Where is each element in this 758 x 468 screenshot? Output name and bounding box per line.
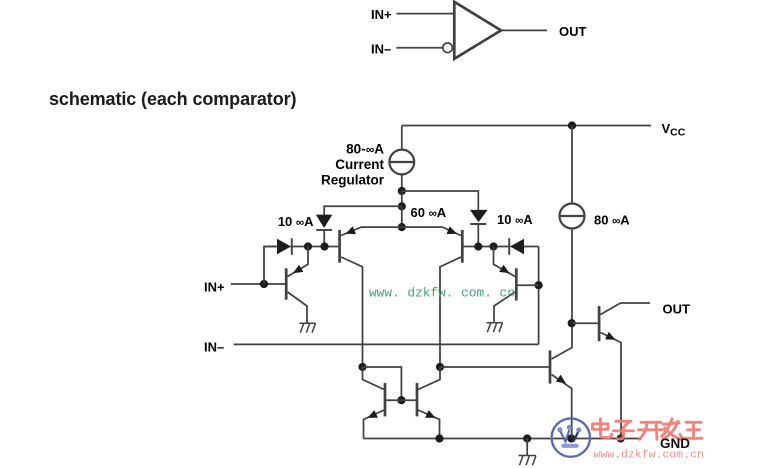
transistor Q2L bar xyxy=(338,230,341,263)
Q1R emitter xyxy=(494,247,516,277)
node D3 cathode dot xyxy=(320,242,328,250)
svg-text:80-∞A: 80-∞A xyxy=(346,142,384,157)
svg-text:10 ∞A: 10 ∞A xyxy=(497,212,533,227)
ground chassis center xyxy=(526,439,528,456)
node Q8 base dot xyxy=(568,319,576,327)
wire node1 to node2 xyxy=(401,191,403,206)
Q1L collector xyxy=(288,292,308,323)
wire mirror right node to Q7 base xyxy=(440,366,549,368)
transistor Q5 bar xyxy=(384,383,387,416)
left base rail wire xyxy=(291,246,339,248)
GND rail wire xyxy=(364,438,641,440)
Q1R emitter arrow xyxy=(499,265,509,274)
node 2 dot xyxy=(398,202,406,210)
Q8 emitter arrow xyxy=(605,332,615,340)
wire CS1 to node1 xyxy=(401,174,403,191)
node rail Q6 dot xyxy=(435,434,443,442)
node D1 cathode dot xyxy=(304,242,312,250)
transistor Q8 bar xyxy=(598,306,601,341)
mirror diode-connect wire xyxy=(363,367,402,400)
Q6 emitter xyxy=(418,410,440,439)
ground at Q1R collector xyxy=(487,323,503,333)
svg-text:Current: Current xyxy=(335,157,384,172)
svg-text:IN+: IN+ xyxy=(371,7,392,22)
wire IN+ node up to D1 anode xyxy=(264,247,276,285)
comparator symbol triangle xyxy=(454,2,501,59)
svg-text:80 ∞A: 80 ∞A xyxy=(594,213,630,228)
node Q1R emitter dot xyxy=(489,242,497,250)
wire comparator output xyxy=(501,29,547,31)
diode D1 clamp left xyxy=(277,239,291,255)
Q7 emitter xyxy=(552,375,572,439)
mirror base wires xyxy=(386,399,416,401)
Q1R base wire xyxy=(518,284,539,286)
wire IN- input xyxy=(234,343,539,345)
Q2R collector xyxy=(440,257,461,367)
current regulator CS1 80-uA xyxy=(389,150,414,175)
diode D4 10uA right xyxy=(470,210,488,222)
node rail center dot xyxy=(523,434,531,442)
transistor Q6 bar xyxy=(416,383,419,416)
svg-text:www.dzkfw.com.cn: www.dzkfw.com.cn xyxy=(594,450,704,462)
current mirror: node left dot xyxy=(358,363,366,371)
svg-text:VCC: VCC xyxy=(662,121,686,139)
node rail Q8 dot xyxy=(617,434,625,442)
node VCC branch dot xyxy=(568,121,576,129)
Q2L collector xyxy=(341,257,363,367)
svg-text:IN–: IN– xyxy=(371,42,391,57)
transistor Q1R bar xyxy=(515,268,518,300)
logo crown W xyxy=(560,430,579,442)
Q8 collector to OUT xyxy=(601,303,651,315)
svg-text:IN–: IN– xyxy=(204,340,224,355)
Q1R collector xyxy=(494,292,515,323)
Q1L emitter xyxy=(288,247,309,277)
logo blue circle xyxy=(552,418,590,456)
wire IN+ input xyxy=(231,283,285,285)
Q5 emitter arrow xyxy=(368,410,378,418)
ground at Q1L collector xyxy=(300,323,316,333)
wire IN+ to comparator xyxy=(396,13,454,15)
current source CS2 80uA xyxy=(560,204,585,229)
node D4 cathode dot xyxy=(474,242,482,250)
right base rail wire xyxy=(464,246,511,248)
transistor Q2R bar xyxy=(461,230,464,263)
wire VCC to CS1 xyxy=(401,126,403,150)
svg-text:IN+: IN+ xyxy=(204,280,225,295)
mirror common base dot xyxy=(397,396,405,404)
diode D3 10uA left xyxy=(316,215,332,228)
svg-text:schematic (each comparator): schematic (each comparator) xyxy=(49,89,296,109)
wire node1 to D4 anode xyxy=(402,191,479,210)
svg-text:OUT: OUT xyxy=(559,24,587,39)
wire tail to Q2L emitter xyxy=(341,227,402,235)
svg-text:60 ∞A: 60 ∞A xyxy=(411,205,447,220)
Q1L emitter arrow xyxy=(293,265,303,274)
svg-text:GND: GND xyxy=(660,436,690,451)
wire VCC dot to CS2 xyxy=(571,126,573,204)
node 1 dot xyxy=(398,187,406,195)
Q2R emitter arrow xyxy=(447,226,457,234)
node 3 tail dot xyxy=(398,223,406,231)
VCC rail wire xyxy=(402,125,651,127)
Q8 emitter xyxy=(601,333,622,439)
Q2L emitter arrow xyxy=(346,226,356,234)
wire D2 anode down to IN- node xyxy=(538,247,540,345)
svg-text:www. dzkfw. com. cn: www. dzkfw. com. cn xyxy=(369,286,515,301)
svg-text:10 ∞A: 10 ∞A xyxy=(278,214,314,229)
wire node2 to D3 anode xyxy=(324,206,402,214)
svg-text:OUT: OUT xyxy=(663,302,691,317)
svg-text:Regulator: Regulator xyxy=(321,173,385,188)
wire tail to Q2R emitter xyxy=(402,227,461,235)
wire CS2 down to Q7 collector xyxy=(552,229,573,360)
transistor Q1L bar xyxy=(285,268,288,299)
Q5 emitter xyxy=(364,410,385,439)
wire node2 to tail node3 xyxy=(401,206,403,227)
transistor Q7 bar xyxy=(549,350,552,383)
Q8 base wire xyxy=(572,322,598,324)
node rail Q7 dot xyxy=(567,434,575,442)
logo red chinese title xyxy=(593,419,703,440)
inversion bubble on IN- input xyxy=(443,43,453,53)
Q6 collector xyxy=(418,367,440,390)
diode D2 clamp right xyxy=(510,239,524,255)
Q5 collector xyxy=(363,367,385,390)
node IN+ dot xyxy=(260,280,268,288)
node Q1R base dot xyxy=(535,281,543,289)
Q6 emitter arrow xyxy=(425,410,435,418)
Q7 emitter arrow xyxy=(556,375,566,384)
wire IN- to bubble xyxy=(396,47,442,49)
current mirror: node right dot xyxy=(436,363,444,371)
